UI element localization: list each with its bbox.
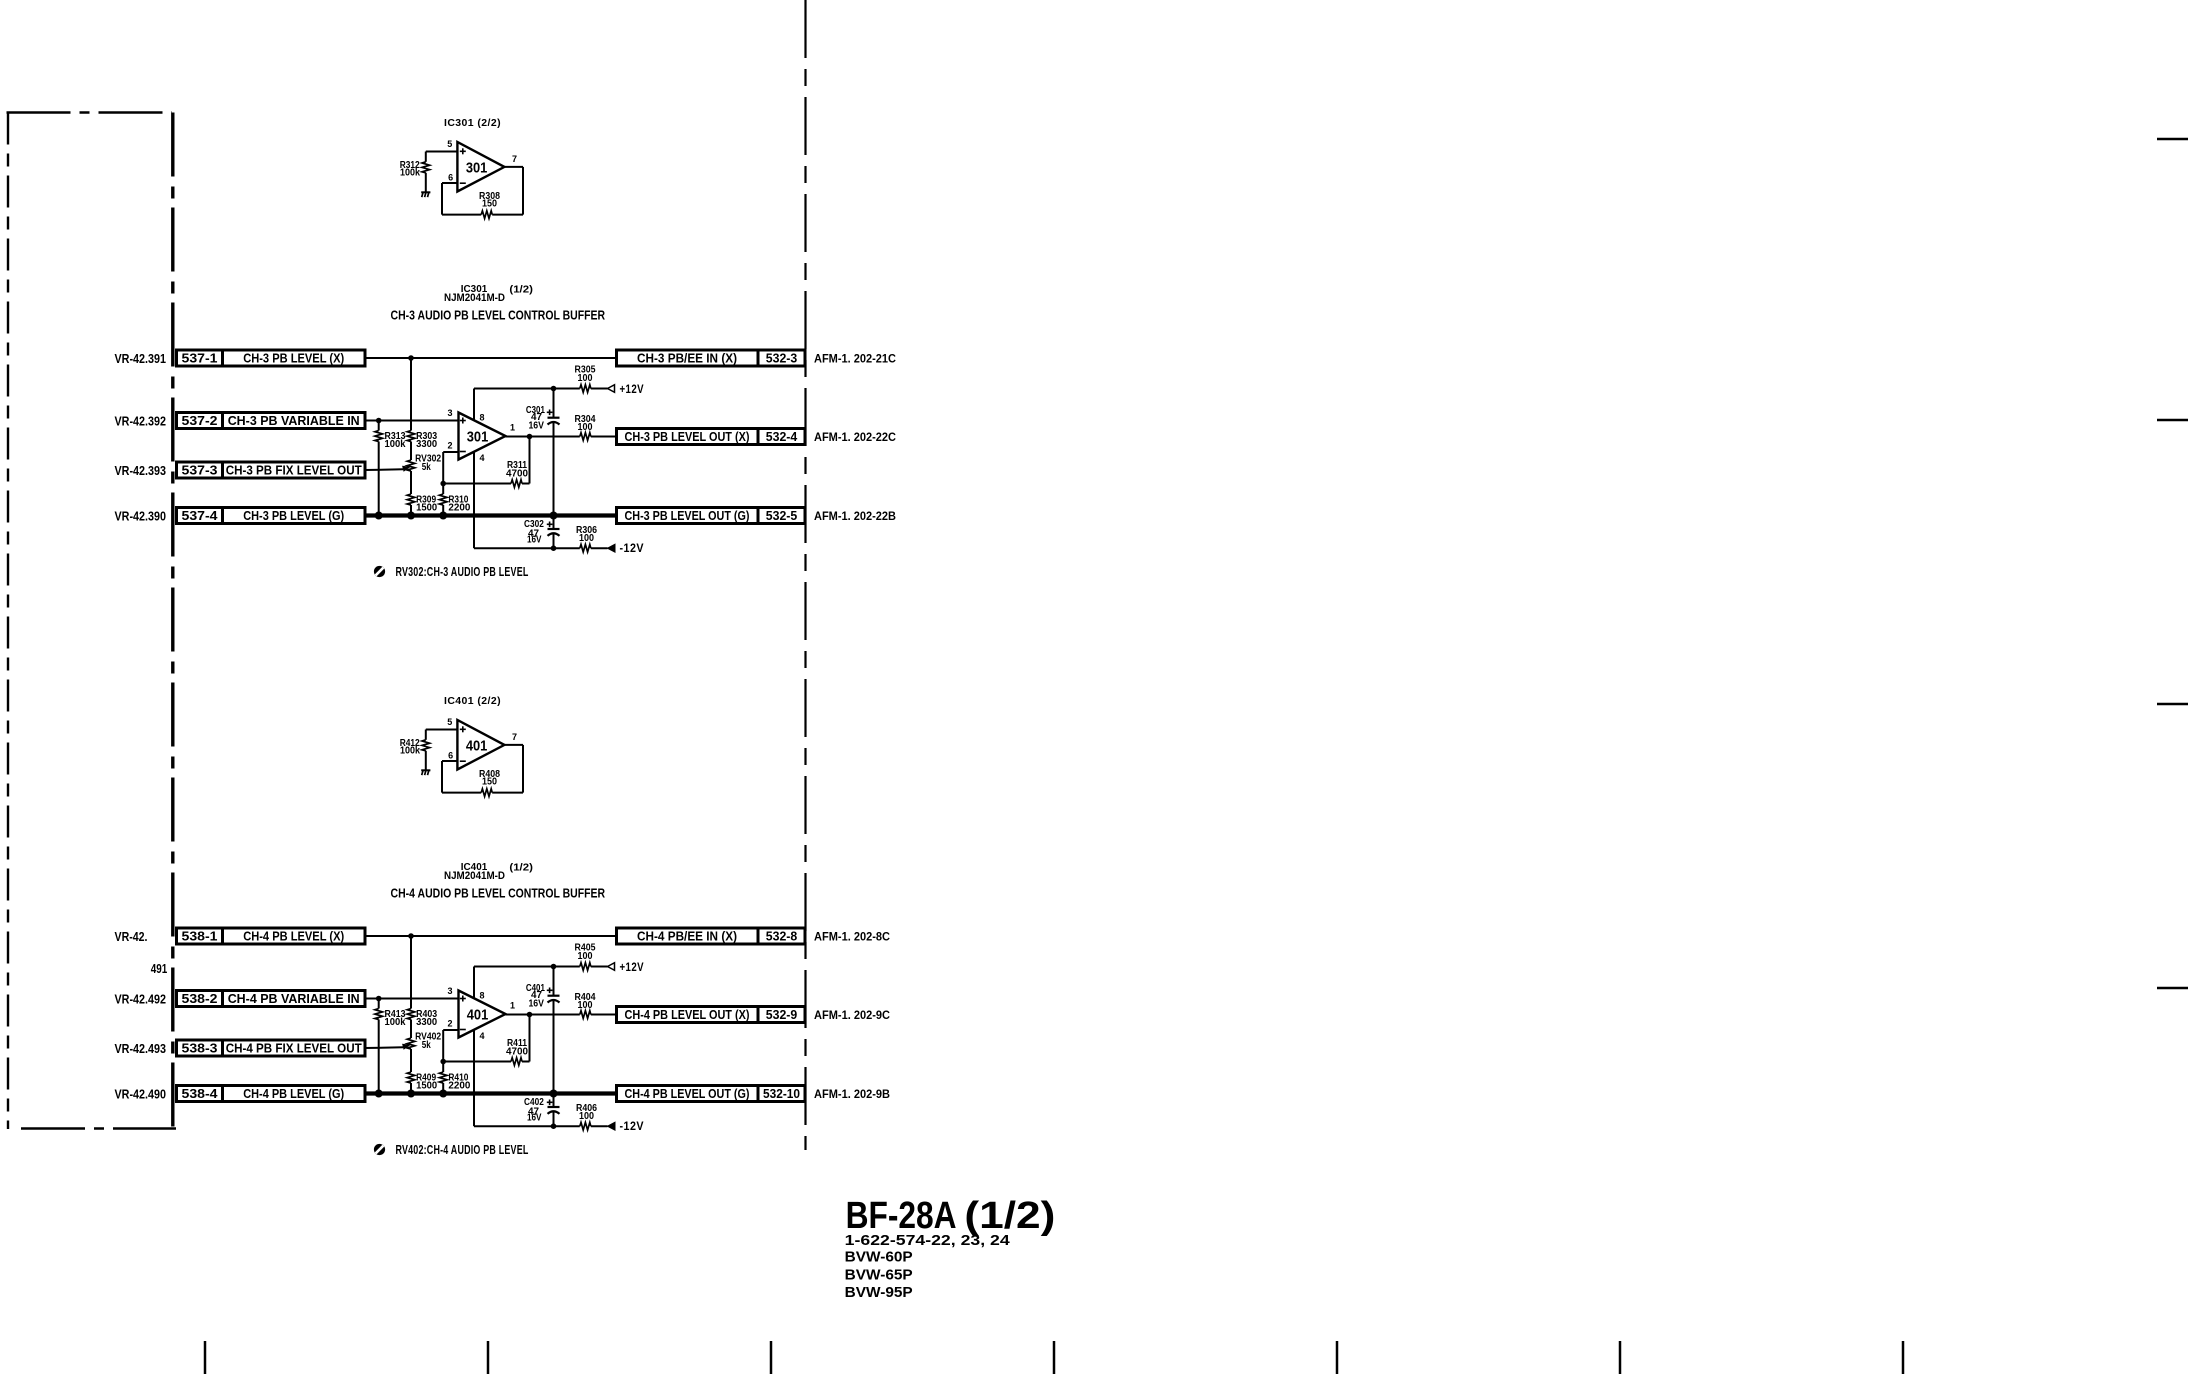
svg-text:BVW-60P: BVW-60P — [845, 1249, 913, 1266]
connector 538-2 pin box — [177, 991, 223, 1007]
resistor R313 100k (VARIABLE IN to G) — [378, 421, 380, 431]
svg-text:VR-42.: VR-42. — [115, 930, 148, 944]
resistor R312 100k (pin5 to ground) — [425, 152, 427, 162]
svg-text:CH-4 AUDIO PB LEVEL CONTROL BU: CH-4 AUDIO PB LEVEL CONTROL BUFFER — [391, 887, 606, 901]
node CH-4 PB FIX LEVEL OUT (left box) — [223, 1040, 366, 1056]
svg-text:100k: 100k — [385, 1017, 406, 1028]
svg-text:AFM-1. 202-22B: AFM-1. 202-22B — [814, 509, 896, 523]
connector 537-1 pin box — [177, 350, 223, 366]
svg-text:301: 301 — [467, 429, 489, 446]
svg-text:VR-42.393: VR-42.393 — [115, 464, 167, 478]
wire: adjacent-sheet frame bottom dash-dot — [21, 1127, 176, 1129]
op-amp U 301 (2/2) triangle — [457, 142, 504, 192]
svg-text:532-8: 532-8 — [766, 929, 798, 944]
svg-text:16V: 16V — [527, 535, 542, 546]
svg-text:2: 2 — [447, 1019, 452, 1029]
potentiometer RV402 5k body — [407, 1038, 415, 1049]
svg-text:RV302:CH-3 AUDIO PB LEVEL: RV302:CH-3 AUDIO PB LEVEL — [396, 564, 529, 579]
registration tick bottom 6 — [1619, 1341, 1622, 1374]
svg-text:6: 6 — [448, 750, 453, 760]
node CH-3 PB/EE IN (X) (right box) — [617, 350, 759, 366]
wire: row PB VARIABLE IN to op-amp pin 3 — [365, 998, 459, 1000]
resistor R411 4700 (feedback) — [443, 1061, 511, 1063]
node junction row X / divider top — [408, 355, 414, 361]
svg-text:CH-4 PB LEVEL OUT (X): CH-4 PB LEVEL OUT (X) — [625, 1007, 750, 1022]
svg-text:3: 3 — [447, 408, 452, 418]
wire: feedback up to output — [529, 437, 531, 484]
svg-text:100k: 100k — [385, 439, 406, 450]
svg-text:537-2: 537-2 — [182, 413, 218, 428]
power +12V arrow — [608, 385, 615, 393]
svg-text:NJM2041M-D: NJM2041M-D — [444, 870, 505, 882]
resistor R404 100 (output series) — [580, 1011, 591, 1019]
resistor R403 3300 (divider top) — [410, 936, 412, 1009]
registration tick bottom 5 — [1336, 1341, 1339, 1374]
node CH-3 PB FIX LEVEL OUT (left box) — [223, 462, 366, 478]
resistor R405 100 (+12V series) — [580, 963, 591, 971]
wire: pin 4 to -12V rail — [473, 1030, 475, 1127]
svg-text:1500: 1500 — [416, 503, 437, 514]
connector 532-10 pin box — [758, 1086, 805, 1102]
svg-text:7: 7 — [512, 154, 517, 164]
svg-text:AFM-1. 202-9C: AFM-1. 202-9C — [814, 1008, 890, 1022]
svg-text:AFM-1. 202-21C: AFM-1. 202-21C — [814, 352, 896, 366]
wire: page boundary dashed line (right, x=805) — [804, 0, 806, 1150]
potentiometer wiper arrow of RV402 — [402, 1044, 411, 1050]
node +12V junction — [551, 386, 557, 392]
svg-text:4700: 4700 — [506, 469, 528, 480]
node junction VARIABLE IN / R313 — [376, 418, 382, 424]
svg-text:VR-42.493: VR-42.493 — [115, 1042, 167, 1056]
wire: pin 8 to +12V rail — [473, 389, 475, 421]
svg-text:538-4: 538-4 — [182, 1086, 219, 1101]
svg-text:301: 301 — [466, 160, 488, 177]
wire: pin 6 inverting input — [442, 182, 457, 184]
resistor R308 150 (feedback) — [442, 214, 481, 216]
svg-text:VR-42.390: VR-42.390 — [115, 510, 167, 524]
svg-text:2200: 2200 — [448, 1081, 470, 1092]
node CH-3 PB LEVEL OUT (X) (right box) — [617, 429, 759, 445]
svg-text:VR-42.392: VR-42.392 — [115, 415, 167, 429]
registration tick right 1 — [2157, 138, 2188, 141]
connector 538-3 pin box — [177, 1040, 223, 1056]
svg-text:532-5: 532-5 — [766, 508, 798, 523]
svg-text:(1/2): (1/2) — [964, 1195, 1055, 1237]
svg-text:100: 100 — [579, 533, 594, 544]
resistor R412 100k (pin5 to ground) — [425, 730, 427, 740]
svg-text:537-3: 537-3 — [182, 463, 218, 478]
resistor R413 100k (VARIABLE IN to G) — [378, 999, 380, 1009]
node CH-4 PB/EE IN (X) (right box) — [617, 928, 759, 944]
node junctions on ground bus — [375, 512, 383, 520]
resistor R410 2200 (inverting input to G) — [442, 1062, 444, 1073]
connector 532-3 pin box — [758, 350, 805, 366]
registration tick right 4 — [2157, 987, 2188, 990]
wire: adjacent-sheet frame left vertical dash-dot — [7, 113, 9, 1130]
capacitor C401 47/16V (+12V to G) — [553, 967, 555, 996]
node output junction — [527, 434, 533, 440]
wire: pin 2 inverting input — [443, 1029, 458, 1031]
svg-text:CH-3 PB LEVEL (G): CH-3 PB LEVEL (G) — [243, 508, 344, 523]
svg-text:2200: 2200 — [448, 503, 470, 514]
node -12V junction — [551, 545, 557, 551]
svg-text:CH-4 PB FIX LEVEL OUT: CH-4 PB FIX LEVEL OUT — [226, 1041, 362, 1056]
svg-text:5: 5 — [447, 717, 452, 727]
power -12V arrow — [608, 1122, 616, 1130]
svg-text:3: 3 — [447, 986, 452, 996]
wire: row PB VARIABLE IN to op-amp pin 3 — [365, 420, 459, 422]
wire: op-amp output row — [506, 436, 580, 438]
svg-text:537-4: 537-4 — [182, 508, 219, 523]
svg-text:4: 4 — [479, 453, 484, 463]
node CH-4 PB LEVEL (G) (left box) — [223, 1086, 366, 1102]
wire: row PB LEVEL (X) — [365, 935, 617, 937]
svg-text:CH-4 PB LEVEL (G): CH-4 PB LEVEL (G) — [243, 1086, 344, 1101]
wire: row PB FIX LEVEL OUT to RV wiper — [365, 468, 403, 471]
svg-text:6: 6 — [448, 172, 453, 182]
resistor R311 4700 (feedback) — [443, 483, 511, 485]
svg-text:CH-3 PB/EE IN (X): CH-3 PB/EE IN (X) — [637, 351, 737, 366]
svg-text:5: 5 — [447, 139, 452, 149]
svg-text:CH-3 AUDIO PB LEVEL CONTROL BU: CH-3 AUDIO PB LEVEL CONTROL BUFFER — [391, 309, 606, 323]
svg-text:CH-4 PB LEVEL (X): CH-4 PB LEVEL (X) — [243, 929, 344, 944]
svg-text:1500: 1500 — [416, 1081, 437, 1092]
resistor R406 100 (-12V series) — [580, 1122, 591, 1130]
svg-text:CH-3 PB LEVEL OUT (X): CH-3 PB LEVEL OUT (X) — [625, 429, 750, 444]
node output junction — [527, 1012, 533, 1018]
svg-text:4700: 4700 — [506, 1047, 528, 1058]
svg-text:(1/2): (1/2) — [509, 862, 533, 874]
svg-text:NJM2041M-D: NJM2041M-D — [444, 292, 505, 304]
svg-text:-12V: -12V — [620, 543, 645, 555]
svg-text:1-622-574-22, 23, 24: 1-622-574-22, 23, 24 — [845, 1232, 1011, 1249]
svg-text:5k: 5k — [422, 462, 431, 473]
op-amp U 401 (2/2) triangle — [457, 720, 504, 770]
node CH-4 PB LEVEL OUT (G) (right box) — [617, 1086, 759, 1102]
node CH-4 PB VARIABLE IN (left box) — [223, 991, 366, 1007]
svg-text:532-4: 532-4 — [766, 429, 798, 444]
node CH-3 PB LEVEL (X) (left box) — [223, 350, 366, 366]
svg-text:100k: 100k — [400, 167, 420, 178]
potentiometer wiper arrow of RV302 — [402, 466, 411, 472]
registration tick bottom 1 — [204, 1341, 207, 1374]
svg-text:7: 7 — [512, 732, 517, 742]
svg-text:100: 100 — [578, 1000, 593, 1011]
resistor R309 1500 (divider bottom) — [407, 494, 415, 505]
capacitor C301 47/16V (+12V to G) — [553, 389, 555, 418]
node CH-4 PB LEVEL OUT (X) (right box) — [617, 1007, 759, 1023]
svg-text:AFM-1. 202-9B: AFM-1. 202-9B — [814, 1087, 890, 1101]
svg-text:-12V: -12V — [620, 1121, 645, 1133]
adjustment symbol + note RV402 — [374, 1144, 385, 1155]
registration tick bottom 3 — [770, 1341, 773, 1374]
node +12V junction — [551, 964, 557, 970]
svg-text:CH-3 PB LEVEL (X): CH-3 PB LEVEL (X) — [243, 351, 344, 366]
svg-text:100: 100 — [578, 951, 593, 962]
node junctions on ground bus — [375, 1090, 383, 1098]
resistor R409 1500 (divider bottom) — [407, 1072, 415, 1083]
svg-text:CH-4 PB/EE IN (X): CH-4 PB/EE IN (X) — [637, 929, 737, 944]
svg-text:VR-42.492: VR-42.492 — [115, 993, 167, 1007]
svg-text:1: 1 — [510, 1001, 515, 1011]
node junction row X / divider top — [408, 933, 414, 939]
svg-text:2: 2 — [447, 441, 452, 451]
svg-text:VR-42.391: VR-42.391 — [115, 352, 167, 366]
op-amp U 301 (1/2) triangle — [459, 413, 506, 460]
svg-text:CH-3 PB LEVEL OUT (G): CH-3 PB LEVEL OUT (G) — [625, 508, 750, 523]
wire: pin 4 to -12V rail — [473, 452, 475, 549]
connector 538-1 pin box — [177, 928, 223, 944]
wire: op-amp output row — [506, 1014, 580, 1016]
resistor R310 2200 (inverting input to G) — [442, 484, 444, 495]
registration tick right 3 — [2157, 703, 2188, 706]
svg-text:100: 100 — [578, 373, 593, 384]
wire: feedback up to output — [529, 1015, 531, 1062]
svg-text:CH-3 PB FIX LEVEL OUT: CH-3 PB FIX LEVEL OUT — [226, 463, 362, 478]
connector 532-8 pin box — [758, 928, 805, 944]
svg-text:3300: 3300 — [416, 1017, 437, 1028]
node CH-3 PB VARIABLE IN (left box) — [223, 413, 366, 429]
svg-text:AFM-1. 202-8C: AFM-1. 202-8C — [814, 930, 890, 944]
capacitor C302 47/16V (G to -12V) — [553, 516, 555, 530]
svg-text:3300: 3300 — [416, 439, 437, 450]
svg-text:401: 401 — [467, 1007, 489, 1024]
resistor R303 3300 (divider top) — [410, 358, 412, 431]
svg-text:538-1: 538-1 — [182, 929, 218, 944]
svg-text:150: 150 — [482, 199, 497, 210]
node CH-4 PB LEVEL (X) (left box) — [223, 928, 366, 944]
svg-text:537-1: 537-1 — [182, 351, 218, 366]
svg-text:16V: 16V — [528, 420, 544, 431]
node CH-3 PB LEVEL (G) (left box) — [223, 508, 366, 524]
node CH-3 PB LEVEL OUT (G) (right box) — [617, 508, 759, 524]
connector 537-4 pin box — [177, 508, 223, 524]
wire: pin 8 to +12V rail — [473, 967, 475, 999]
wire: pin 2 inverting input — [443, 451, 458, 453]
wire: row PB FIX LEVEL OUT to RV wiper — [365, 1046, 403, 1049]
svg-text:401: 401 — [466, 738, 488, 755]
wire: row PB LEVEL (G) bold ground bus — [365, 1091, 617, 1095]
adjustment symbol + note RV302 — [374, 566, 385, 577]
op-amp U 401 (1/2) triangle — [459, 991, 506, 1038]
svg-text:150: 150 — [482, 777, 497, 788]
svg-text:+12V: +12V — [620, 962, 645, 974]
wire: pin 7 output loop — [504, 744, 523, 746]
wire: pin 6 inverting input — [442, 760, 457, 762]
ground — [421, 191, 430, 193]
capacitor C402 47/16V (G to -12V) — [553, 1094, 555, 1108]
registration tick bottom 4 — [1053, 1341, 1056, 1374]
svg-text:(1/2): (1/2) — [509, 284, 533, 296]
connector 532-5 pin box — [758, 508, 805, 524]
svg-text:IC301 (2/2): IC301 (2/2) — [444, 118, 501, 129]
svg-text:CH-4 PB VARIABLE IN: CH-4 PB VARIABLE IN — [228, 991, 360, 1006]
connector 532-9 pin box — [758, 1007, 805, 1023]
svg-text:RV402:CH-4 AUDIO PB LEVEL: RV402:CH-4 AUDIO PB LEVEL — [396, 1142, 529, 1157]
connector 537-3 pin box — [177, 462, 223, 478]
wire: pin 7 output loop — [504, 166, 523, 168]
svg-text:100k: 100k — [400, 745, 420, 756]
connector 532-4 pin box — [758, 429, 805, 445]
svg-text:5k: 5k — [422, 1040, 431, 1051]
wire: row PB LEVEL (X) — [365, 357, 617, 359]
resistor R304 100 (output series) — [580, 433, 591, 441]
registration tick bottom 7 — [1902, 1341, 1905, 1374]
wire: pin 5 input — [426, 151, 458, 153]
wire: row PB LEVEL (G) bold ground bus — [365, 513, 617, 517]
svg-text:100: 100 — [578, 422, 593, 433]
wire: adjacent-sheet frame top dash-dot — [7, 111, 173, 113]
ground — [421, 769, 430, 771]
node junction VARIABLE IN / R413 — [376, 996, 382, 1002]
svg-text:532-10: 532-10 — [763, 1086, 800, 1101]
resistor R306 100 (-12V series) — [580, 544, 591, 552]
svg-text:IC401 (2/2): IC401 (2/2) — [444, 696, 501, 707]
svg-text:532-3: 532-3 — [766, 351, 798, 366]
svg-text:1: 1 — [510, 423, 515, 433]
resistor R305 100 (+12V series) — [580, 385, 591, 393]
node feedback junction — [440, 481, 446, 487]
svg-text:100: 100 — [579, 1111, 594, 1122]
registration tick right 2 — [2157, 419, 2188, 422]
svg-text:BF-28A: BF-28A — [846, 1195, 957, 1237]
connector 538-4 pin box — [177, 1086, 223, 1102]
registration tick bottom 2 — [487, 1341, 490, 1374]
svg-text:538-3: 538-3 — [182, 1041, 218, 1056]
node -12V junction — [551, 1123, 557, 1129]
svg-text:CH-4 PB LEVEL OUT (G): CH-4 PB LEVEL OUT (G) — [625, 1086, 750, 1101]
connector 537-2 pin box — [177, 413, 223, 429]
svg-text:8: 8 — [479, 991, 484, 1001]
svg-text:538-2: 538-2 — [182, 991, 218, 1006]
svg-text:532-9: 532-9 — [766, 1007, 798, 1022]
svg-text:CH-3 PB VARIABLE IN: CH-3 PB VARIABLE IN — [228, 413, 360, 428]
svg-text:BVW-65P: BVW-65P — [845, 1267, 913, 1284]
svg-text:16V: 16V — [528, 998, 544, 1009]
resistor R408 150 (feedback) — [442, 792, 481, 794]
wire: pin 5 input — [426, 729, 458, 731]
svg-text:491: 491 — [151, 962, 168, 976]
svg-text:+12V: +12V — [620, 384, 645, 396]
svg-text:8: 8 — [479, 413, 484, 423]
svg-text:VR-42.490: VR-42.490 — [115, 1088, 167, 1102]
svg-text:16V: 16V — [527, 1113, 542, 1124]
wire: board edge thick dashed vertical (x=173) — [171, 113, 174, 1131]
svg-text:BVW-95P: BVW-95P — [845, 1284, 913, 1301]
svg-text:AFM-1. 202-22C: AFM-1. 202-22C — [814, 430, 896, 444]
node feedback junction — [440, 1059, 446, 1065]
svg-text:4: 4 — [479, 1031, 484, 1041]
power +12V arrow — [608, 963, 615, 971]
potentiometer RV302 5k body — [407, 460, 415, 471]
power -12V arrow — [608, 544, 616, 552]
